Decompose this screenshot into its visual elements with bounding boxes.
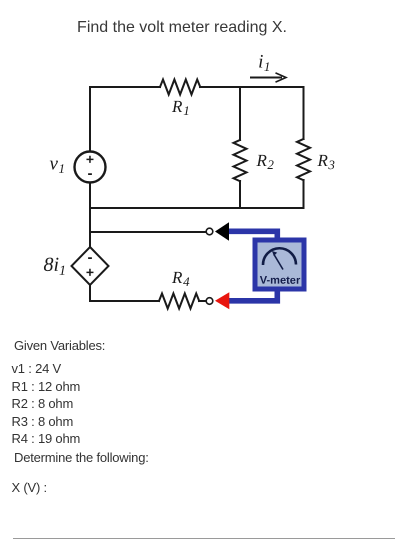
wire diamond bottom to bottom rail	[89, 285, 91, 301]
resistor R1	[160, 80, 200, 95]
current arrow i1	[250, 73, 286, 82]
svg-text:R1: R1	[171, 97, 190, 118]
wire R2 branch upper	[239, 87, 241, 140]
svg-text:v1: v1	[50, 153, 65, 176]
node circle bottom	[206, 298, 213, 305]
voltage source V1	[75, 152, 106, 183]
red probe arrow	[215, 292, 229, 309]
svg-text:V-meter: V-meter	[260, 275, 301, 287]
circuit schematic	[0, 0, 395, 330]
V-meter needle	[274, 255, 283, 270]
V-meter arc	[263, 248, 296, 265]
wire middle rail 1	[90, 207, 304, 209]
separator rule	[13, 538, 395, 539]
svg-text:-: -	[87, 165, 92, 182]
wire middle rail 2	[90, 231, 206, 233]
wire V1 bottom to diamond	[89, 183, 91, 247]
wire top-left from V1 up to top rail	[89, 87, 91, 151]
svg-text:R3: R3	[317, 151, 336, 172]
wire right branch upper	[303, 87, 305, 139]
black probe arrow	[215, 222, 229, 240]
V-meter box	[255, 240, 304, 289]
blue wire bottom from V-meter	[229, 289, 278, 301]
svg-text:R2: R2	[256, 151, 275, 172]
resistor R3	[297, 139, 310, 180]
wire top rail right segment	[200, 86, 304, 88]
resistor R2	[234, 140, 247, 181]
given variables text	[14, 338, 105, 353]
node circle top	[206, 228, 213, 235]
resistor R4	[159, 294, 199, 309]
svg-text:+: +	[86, 264, 94, 280]
svg-text:i1: i1	[258, 52, 270, 75]
wire bottom rail left	[90, 300, 159, 302]
dependent source 8i1 diamond	[72, 247, 109, 285]
wire R4 to node	[199, 300, 206, 302]
wire right branch lower	[303, 180, 305, 208]
wire R2 branch lower	[239, 181, 241, 208]
title	[0, 19, 364, 37]
wire top rail left segment	[90, 86, 160, 88]
svg-text:8i1: 8i1	[43, 254, 66, 279]
blue wire top to V-meter	[229, 231, 278, 240]
svg-text:R4: R4	[171, 268, 190, 289]
